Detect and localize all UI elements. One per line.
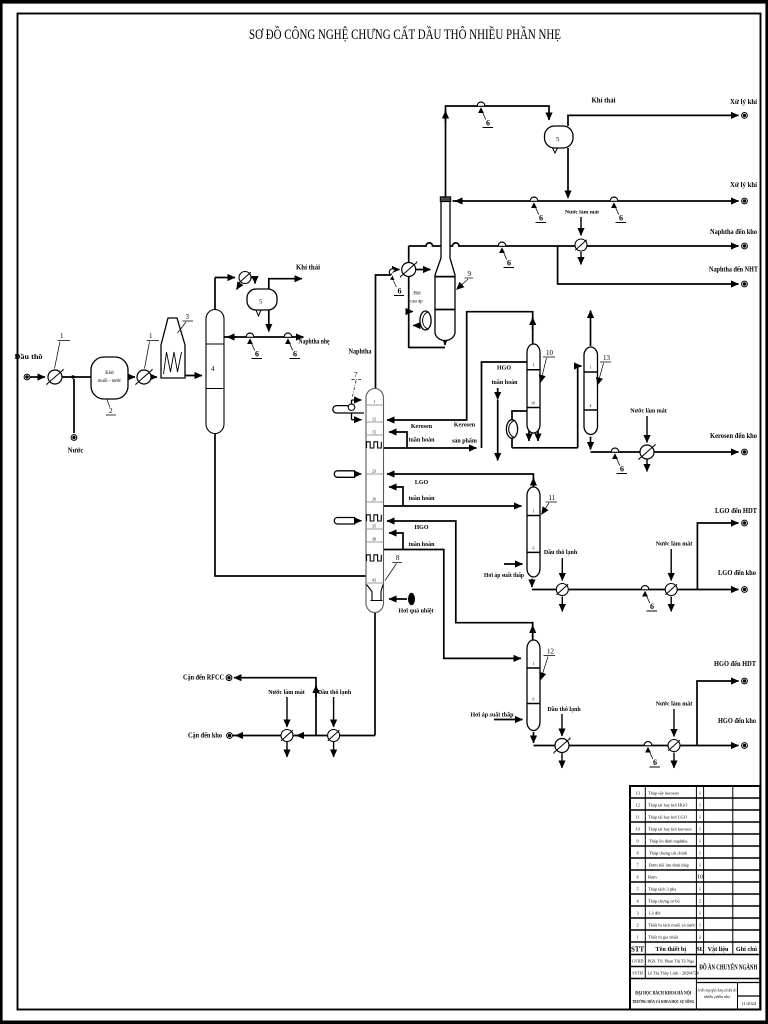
svg-text:LGO đến kho: LGO đến kho [718, 568, 756, 577]
svg-text:Dầu thô lạnh: Dầu thô lạnh [318, 689, 352, 696]
svg-text:Tháp tái bay hơi HGO: Tháp tái bay hơi HGO [648, 803, 687, 808]
svg-text:1: 1 [60, 332, 64, 340]
svg-text:13: 13 [603, 354, 611, 362]
svg-text:1: 1 [590, 366, 592, 370]
svg-text:1: 1 [699, 803, 701, 808]
svg-text:tuần hoàn: tuần hoàn [409, 437, 436, 444]
svg-text:3: 3 [186, 313, 190, 321]
svg-text:STT: STT [631, 946, 645, 954]
svg-text:HGO đến kho: HGO đến kho [718, 716, 756, 725]
svg-text:6: 6 [533, 698, 535, 702]
svg-text:Nước làm mát: Nước làm mát [656, 542, 693, 548]
svg-text:1: 1 [699, 851, 701, 856]
svg-text:Hơi áp suất thấp: Hơi áp suất thấp [471, 712, 515, 719]
svg-text:LGO đến HDT: LGO đến HDT [715, 506, 757, 515]
svg-text:1: 1 [699, 923, 701, 928]
svg-text:1: 1 [699, 887, 701, 892]
svg-text:12: 12 [547, 648, 555, 656]
svg-text:Naphtha đến kho: Naphtha đến kho [710, 227, 757, 236]
svg-text:Dầu thô lạnh: Dầu thô lạnh [547, 706, 581, 713]
svg-text:2: 2 [636, 923, 638, 928]
svg-text:Thiết bị tách muối và nước: Thiết bị tách muối và nước [648, 923, 696, 928]
svg-text:Sơ đồ công nghệ chưng cất dầu: Sơ đồ công nghệ chưng cất dầu thô [698, 988, 738, 993]
svg-text:Thiết bị gia nhiệt: Thiết bị gia nhiệt [648, 935, 679, 940]
svg-text:Naphtha nhẹ: Naphtha nhẹ [299, 339, 330, 346]
svg-text:1: 1 [374, 400, 376, 404]
svg-text:Tháp tái bay hơi kerosen: Tháp tái bay hơi kerosen [648, 827, 692, 832]
svg-text:7: 7 [354, 371, 358, 379]
svg-text:sản phẩm: sản phẩm [452, 438, 477, 445]
svg-text:GVHD: GVHD [632, 959, 644, 964]
svg-text:35: 35 [372, 525, 376, 529]
svg-text:6: 6 [533, 547, 535, 551]
svg-text:1: 1 [149, 332, 153, 340]
svg-text:LGO: LGO [415, 480, 429, 486]
svg-text:12: 12 [635, 803, 639, 808]
svg-text:1: 1 [699, 863, 701, 868]
svg-text:2: 2 [699, 899, 701, 904]
svg-text:Tháp tái bay hơi LGO: Tháp tái bay hơi LGO [648, 815, 687, 820]
svg-text:Cặn đến RFCC: Cặn đến RFCC [183, 675, 224, 682]
svg-text:1: 1 [636, 935, 638, 940]
svg-text:10: 10 [546, 349, 554, 357]
svg-text:12: 12 [372, 418, 376, 422]
svg-text:Xử lý khí: Xử lý khí [730, 180, 758, 189]
svg-text:PGS. TS. Phan Thị Tố Nga: PGS. TS. Phan Thị Tố Nga [648, 959, 695, 964]
svg-text:Naphtha đến NHT: Naphtha đến NHT [709, 265, 758, 274]
svg-text:Kerosen đến kho: Kerosen đến kho [710, 431, 757, 440]
svg-text:Tháp chưng sơ bộ: Tháp chưng sơ bộ [648, 899, 680, 904]
svg-text:tuần hoàn: tuần hoàn [409, 495, 436, 502]
svg-text:Nước làm mát: Nước làm mát [630, 409, 667, 415]
svg-text:1: 1 [699, 791, 701, 796]
svg-text:5: 5 [259, 299, 262, 306]
svg-text:9: 9 [468, 270, 472, 278]
svg-text:Khử: Khử [105, 371, 114, 376]
svg-text:SVTH: SVTH [632, 971, 643, 976]
svg-text:Vật liệu: Vật liệu [708, 946, 729, 953]
svg-text:ĐẠI HỌC BÁCH KHOA HÀ NỘI: ĐẠI HỌC BÁCH KHOA HÀ NỘI [635, 989, 691, 997]
svg-text:Tên thiết bị: Tên thiết bị [655, 946, 686, 953]
svg-text:8: 8 [396, 554, 400, 562]
svg-text:Tháp ổn định naphtha: Tháp ổn định naphtha [649, 839, 687, 844]
svg-text:HGO: HGO [414, 525, 428, 531]
svg-text:Kerosen: Kerosen [411, 424, 433, 430]
svg-text:Nước: Nước [68, 448, 84, 455]
svg-text:Kerosen: Kerosen [454, 423, 476, 429]
svg-text:Bơm: Bơm [648, 875, 657, 880]
svg-text:26: 26 [372, 498, 376, 502]
svg-text:cao áp: cao áp [410, 300, 423, 305]
svg-text:11: 11 [635, 815, 639, 820]
svg-text:2: 2 [699, 935, 701, 940]
svg-text:10: 10 [697, 875, 703, 881]
svg-text:6: 6 [398, 287, 402, 296]
svg-text:muối - nước: muối - nước [98, 379, 122, 384]
svg-text:Khí thải: Khí thải [592, 98, 616, 105]
svg-text:Ghi chú: Ghi chú [736, 946, 758, 953]
svg-text:1: 1 [699, 911, 701, 916]
svg-text:38: 38 [372, 538, 376, 542]
svg-text:4: 4 [590, 404, 592, 408]
svg-text:Nước làm mát: Nước làm mát [268, 690, 305, 696]
svg-text:5: 5 [556, 136, 559, 143]
svg-text:43: 43 [372, 579, 376, 583]
svg-text:HGO đến HDT: HGO đến HDT [714, 659, 756, 668]
svg-text:Naphtha: Naphtha [349, 349, 373, 356]
svg-text:4: 4 [211, 365, 215, 373]
svg-text:1: 1 [533, 662, 535, 666]
svg-text:1: 1 [699, 827, 701, 832]
svg-text:2: 2 [109, 407, 113, 415]
svg-text:tuần hoàn: tuần hoàn [409, 541, 436, 548]
svg-text:Lò đốt: Lò đốt [649, 911, 661, 916]
svg-text:Dầu thô: Dầu thô [15, 354, 44, 361]
svg-text:15: 15 [372, 431, 376, 435]
svg-text:HGO: HGO [497, 366, 511, 372]
svg-text:tuần hoàn: tuần hoàn [492, 379, 519, 386]
svg-text:11: 11 [549, 494, 556, 502]
svg-text:1: 1 [699, 815, 701, 820]
svg-text:Khí thải: Khí thải [296, 265, 320, 272]
svg-text:23: 23 [372, 470, 376, 474]
svg-text:ĐỒ ÁN CHUYÊN NGÀNH: ĐỒ ÁN CHUYÊN NGÀNH [699, 962, 757, 972]
svg-text:Lê Thị Thùy Linh - 20204726: Lê Thị Thùy Linh - 20204726 [648, 971, 700, 976]
svg-text:SL: SL [696, 946, 704, 953]
svg-text:Xử lý khí: Xử lý khí [730, 97, 758, 106]
svg-text:Tháp chưng cất chính: Tháp chưng cất chính [649, 851, 688, 856]
svg-text:SƠ ĐỒ CÔNG NGHỆ CHƯNG CẤT DẦU: SƠ ĐỒ CÔNG NGHỆ CHƯNG CẤT DẦU THÔ NHIỀU … [249, 25, 561, 43]
svg-text:nhiều phần nhẹ: nhiều phần nhẹ [704, 994, 731, 999]
svg-text:10: 10 [531, 402, 535, 406]
svg-text:Hơi: Hơi [413, 292, 421, 297]
svg-text:Tháp tách 3 pha: Tháp tách 3 pha [648, 887, 676, 892]
svg-text:11/2024: 11/2024 [742, 1001, 757, 1006]
svg-text:1: 1 [699, 839, 701, 844]
svg-text:Bơm hồi lưu đỉnh tháp: Bơm hồi lưu đỉnh tháp [649, 863, 690, 868]
svg-text:Hơi áp suất thấp: Hơi áp suất thấp [484, 572, 525, 579]
svg-text:1: 1 [533, 364, 535, 368]
svg-text:Nước làm mát: Nước làm mát [656, 702, 693, 708]
svg-text:Hơi quá nhiệt: Hơi quá nhiệt [399, 609, 434, 615]
svg-text:1: 1 [533, 510, 535, 514]
svg-text:Nước làm mát: Nước làm mát [565, 210, 599, 216]
svg-text:Cặn đến kho: Cặn đến kho [188, 733, 223, 740]
svg-text:Dầu thô lạnh: Dầu thô lạnh [544, 549, 578, 556]
svg-text:Tháp sấy kerosen: Tháp sấy kerosen [648, 791, 680, 796]
svg-text:TRƯỜNG HÓA VÀ KHOA HỌC SỰ SỐNG: TRƯỜNG HÓA VÀ KHOA HỌC SỰ SỐNG [632, 999, 694, 1004]
